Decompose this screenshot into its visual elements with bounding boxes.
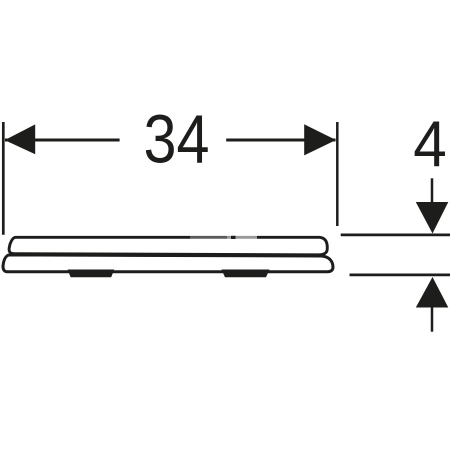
svg-text:4: 4 bbox=[413, 107, 447, 180]
svg-text:34: 34 bbox=[144, 101, 210, 178]
